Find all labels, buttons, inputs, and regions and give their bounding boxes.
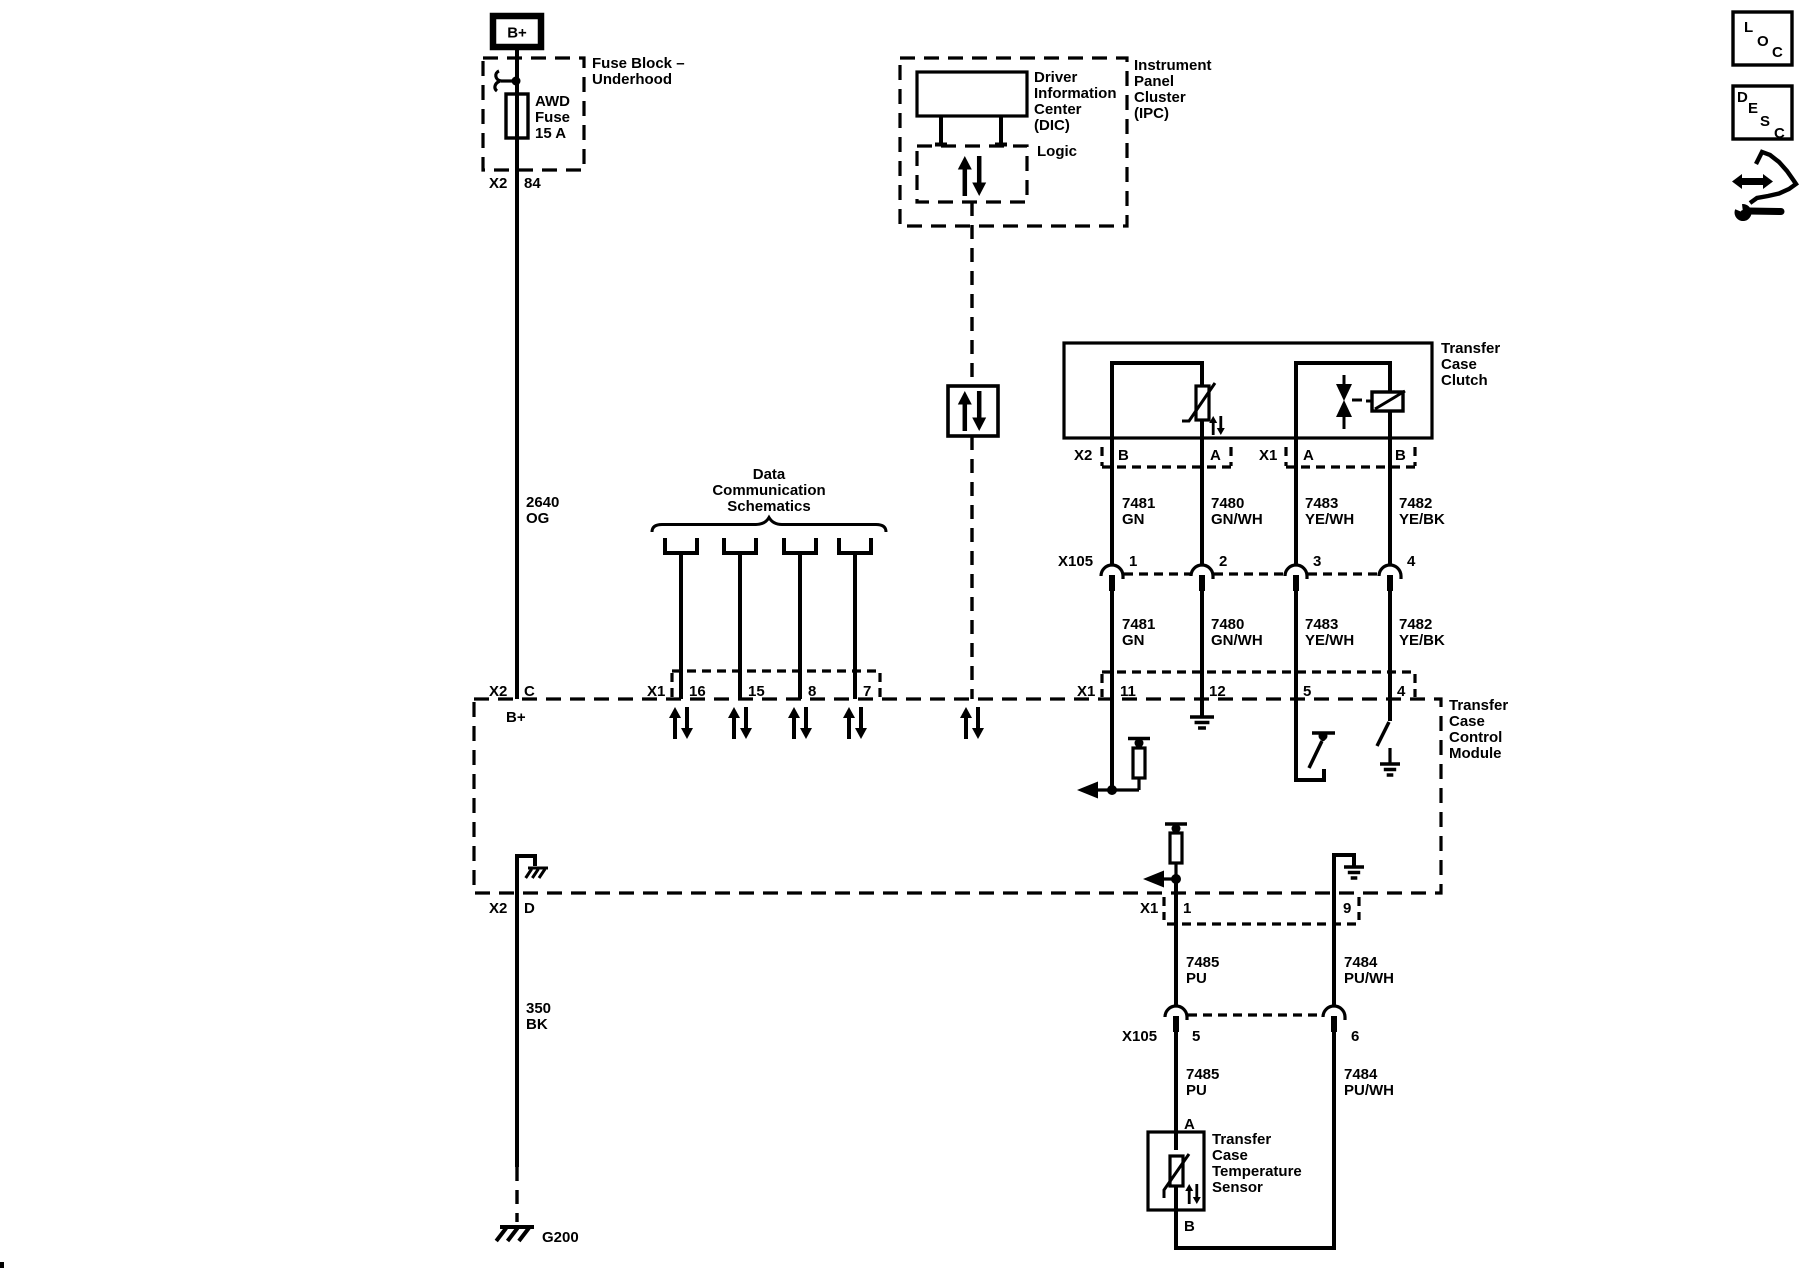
serial data arrows below DIC wire [960,707,984,739]
svg-text:Control: Control [1449,729,1502,746]
node B+ battery terminal [493,16,541,47]
svg-text:X2: X2 [489,900,507,917]
svg-text:YE/WH: YE/WH [1305,511,1354,528]
wire B+ to module pin X2 C [515,47,519,699]
module internal: pull-up resistor at pin 1 [1165,824,1187,879]
transfer case control module dashed box [474,699,1441,893]
svg-text:GN: GN [1122,511,1145,528]
wire X105 pin 5 to sensor pin A [1174,1031,1178,1150]
wire clutch pin to X105 pin 3 [1294,438,1298,564]
off-page connector 2 (data link) [724,538,756,553]
svg-text:O: O [1757,33,1769,50]
svg-text:Data: Data [753,466,786,483]
label Transfer Case Temperature Sensor [1212,1131,1302,1196]
wire label 7483 YE/WH (upper) [1305,495,1354,528]
wire data link 1 to module [679,553,683,699]
svg-text:C: C [1772,44,1783,61]
module internal: wire from pin 4 [1388,699,1392,721]
icon LOC [1733,12,1792,65]
transfer case clutch box [1064,343,1432,438]
wire label 7482 YE/BK (upper) [1399,495,1445,528]
svg-text:7484: 7484 [1344,954,1378,971]
wire label 7485 PU (lower) [1186,1066,1219,1099]
wire data link 3 to module [798,553,802,699]
module internal: switch at pin 4 [1377,722,1389,746]
serial data arrows below pin 8 [788,707,812,739]
label Instrument Panel Cluster (IPC) [1134,57,1212,122]
wire label 350 BK [526,1000,551,1033]
svg-text:Clutch: Clutch [1441,372,1488,389]
svg-text:PU/WH: PU/WH [1344,1082,1394,1099]
svg-text:Module: Module [1449,745,1502,762]
wire X105 to module X1 pin (1) [1110,590,1114,699]
pin label X2 C (module power input) [489,683,535,700]
svg-text:Fuse: Fuse [535,109,570,126]
pin label X2 D [489,900,535,917]
svg-text:3: 3 [1313,553,1321,570]
svg-text:1: 1 [1183,900,1191,917]
solenoid valve symbol [1336,375,1352,429]
svg-text:Fuse Block –: Fuse Block – [592,55,685,72]
clutch temperature sensor loop wiring [1112,363,1202,438]
svg-text:Transfer: Transfer [1212,1131,1271,1148]
svg-text:Underhood: Underhood [592,71,672,88]
serial data arrows below pin 7 [843,707,867,739]
connector X1 dashed strip (data pins) [672,671,880,697]
X105 connector terminal 6 [1323,1006,1345,1032]
svg-text:GN: GN [1122,632,1145,649]
wire label 7484 PU/WH (lower) [1344,1066,1394,1099]
svg-text:X1: X1 [1140,900,1158,917]
svg-text:350: 350 [526,1000,551,1017]
stray mark bottom-left edge [0,1262,4,1268]
svg-text:S: S [1760,113,1770,130]
svg-text:Case: Case [1212,1147,1248,1164]
svg-text:X1: X1 [1259,447,1277,464]
X105 connector terminal 5 [1165,1006,1187,1032]
module internal: ground symbol at pin 9 [1344,867,1364,878]
X105 dashed link (5-6) [1188,1013,1322,1016]
icon diagnostic arrow + wrench [1732,152,1796,221]
wire label 7483 YE/WH (lower) [1305,616,1354,649]
svg-text:A: A [1303,447,1314,464]
svg-text:L: L [1744,19,1753,36]
svg-text:C: C [1774,125,1785,142]
wire module to G200 (350 BK) [515,893,519,1167]
svg-text:Sensor: Sensor [1212,1179,1263,1196]
logic dashed box [917,146,1027,202]
svg-text:D: D [524,900,535,917]
svg-text:OG: OG [526,510,549,527]
svg-text:B: B [1118,447,1129,464]
module internal: signal branch arrow (pin 11) [1077,782,1139,799]
svg-text:4: 4 [1407,553,1416,570]
clutch connector dashed strip X2 [1102,447,1231,467]
serial data arrows below pin 16 [669,707,693,739]
off-page connector 4 (data link) [839,538,871,553]
X105 connector terminal 3 [1285,565,1307,591]
svg-text:7483: 7483 [1305,495,1338,512]
svg-text:Logic: Logic [1037,143,1077,160]
svg-text:7480: 7480 [1211,616,1244,633]
pin label X2 84 (fuse output) [489,175,541,192]
wire label 7482 YE/BK (lower) [1399,616,1445,649]
label Transfer Case Clutch [1441,340,1500,389]
fuse AWD 15 A [506,93,570,142]
wire clutch pin to X105 pin 1 [1110,438,1114,564]
svg-text:BK: BK [526,1016,548,1033]
off-page connector 1 (data link) [665,538,697,553]
X105 connector terminal 4 [1379,565,1401,591]
wire label 2640 OG [526,494,559,527]
thermistor variance arrows [1209,416,1225,435]
svg-text:(IPC): (IPC) [1134,105,1169,122]
svg-text:Transfer: Transfer [1441,340,1500,357]
svg-text:D: D [1737,89,1748,106]
svg-text:6: 6 [1351,1028,1359,1045]
off-page connector 3 (data link) [784,538,816,553]
svg-text:A: A [1210,447,1221,464]
module internal: signal branch arrow (pin 1) [1143,871,1181,888]
svg-text:Center: Center [1034,101,1082,118]
svg-text:GN/WH: GN/WH [1211,632,1263,649]
svg-text:7484: 7484 [1344,1066,1378,1083]
svg-text:Communication: Communication [712,482,825,499]
wire clutch pin to X105 pin 2 [1200,438,1204,564]
serial data junction box with arrows [948,386,998,436]
wire clutch pin to X105 pin 4 [1388,438,1392,564]
solenoid coil [1366,391,1405,411]
module internal: wire from pin 5 [1296,699,1324,780]
svg-text:Temperature: Temperature [1212,1163,1302,1180]
brace [652,518,886,533]
svg-text:7483: 7483 [1305,616,1338,633]
svg-text:G200: G200 [542,1229,579,1246]
wire label 7480 GN/WH (lower) [1211,616,1263,649]
wire data link 2 to module [738,553,742,699]
svg-text:Information: Information [1034,85,1117,102]
svg-text:GN/WH: GN/WH [1211,511,1263,528]
wire label 7481 GN (upper) [1122,495,1155,528]
svg-text:2: 2 [1219,553,1227,570]
wire X105 to module X1 pin (3) [1294,590,1298,699]
fuse element hook [495,71,521,91]
wire label 7484 PU/WH (upper) [1344,954,1394,987]
clutch solenoid loop wiring [1296,363,1390,438]
pin labels X1 1 9 [1140,900,1351,917]
svg-text:7481: 7481 [1122,616,1155,633]
svg-text:Panel: Panel [1134,73,1174,90]
clutch temperature sensor (thermistor) [1182,383,1215,421]
DIC leg left [935,116,947,146]
wire data link 4 to module [853,553,857,699]
svg-text:X105: X105 [1122,1028,1157,1045]
module internal: ground at pin 12 [1190,699,1214,728]
wire X105 to module X1 pin (2) [1200,590,1204,699]
svg-text:YE/BK: YE/BK [1399,511,1445,528]
DIC display rectangle [917,72,1027,116]
fuse block underhood dashed box [483,58,584,170]
svg-text:B: B [1395,447,1406,464]
svg-text:1: 1 [1129,553,1137,570]
X105 connector terminal 1 [1101,565,1123,591]
svg-text:AWD: AWD [535,93,570,110]
X105 pin numbers 5 6 [1192,1028,1359,1045]
svg-text:YE/WH: YE/WH [1305,632,1354,649]
svg-text:7482: 7482 [1399,495,1432,512]
svg-text:Case: Case [1441,356,1477,373]
dashed serial data wire DIC to junction box [970,202,973,386]
svg-text:PU: PU [1186,970,1207,987]
instrument panel cluster dashed box [900,58,1127,226]
module internal: switch at pin 5 [1309,732,1335,769]
dashed wire segment to G200 [515,1167,518,1222]
icon DESC [1733,86,1792,142]
svg-text:15 A: 15 A [535,125,566,142]
svg-text:PU: PU [1186,1082,1207,1099]
X105 pin numbers 1 2 3 4 [1129,553,1416,570]
pin labels X1 11 12 5 4 [1077,683,1406,700]
clutch connector pin labels X2 B A X1 A B [1074,447,1406,464]
module internal: pull-up resistor at pin 11 [1128,739,1150,791]
module internal: ground at pin 4 [1380,748,1400,775]
svg-text:YE/BK: YE/BK [1399,632,1445,649]
module internal: chassis ground to pin X2 D [517,856,548,893]
thermistor variance arrows (sensor) [1185,1184,1201,1204]
svg-text:X2: X2 [489,175,507,192]
wire label 7481 GN (lower) [1122,616,1155,649]
svg-text:Transfer: Transfer [1449,697,1508,714]
svg-text:E: E [1748,100,1758,117]
svg-text:(DIC): (DIC) [1034,117,1070,134]
svg-text:7481: 7481 [1122,495,1155,512]
wire module pin 1 to X105 pin 5 [1174,879,1178,1005]
module connector X1 dashed strip (clutch pins) [1102,672,1415,697]
wire label 7480 GN/WH (upper) [1211,495,1263,528]
clutch connector dashed strip X1 [1286,447,1415,467]
svg-text:Case: Case [1449,713,1485,730]
svg-text:Schematics: Schematics [727,498,810,515]
svg-text:9: 9 [1343,900,1351,917]
svg-text:7485: 7485 [1186,954,1219,971]
svg-text:PU/WH: PU/WH [1344,970,1394,987]
X105 connector terminal 2 [1191,565,1213,591]
wire label 7485 PU (upper) [1186,954,1219,987]
svg-text:B+: B+ [507,25,527,42]
X105 dashed links [1124,572,1378,575]
svg-text:7485: 7485 [1186,1066,1219,1083]
svg-text:Cluster: Cluster [1134,89,1186,106]
svg-text:Driver: Driver [1034,69,1078,86]
ground G200 [496,1227,578,1246]
transfer case temperature sensor box [1148,1132,1204,1210]
label Fuse Block - Underhood [592,55,685,88]
pin labels X1 16 15 8 7 [647,683,871,700]
svg-text:Instrument: Instrument [1134,57,1212,74]
wire X105 to module X1 pin (4) [1388,590,1392,699]
label Driver Information Center (DIC) [1034,69,1117,134]
module bottom connector X1 dashed strip (pins 1, 9) [1164,897,1359,924]
svg-text:X105: X105 [1058,553,1093,570]
label Data Communication Schematics [712,466,825,515]
svg-text:2640: 2640 [526,494,559,511]
DIC leg right [995,116,1007,146]
svg-text:84: 84 [524,175,541,192]
svg-text:B: B [1184,1218,1195,1235]
label Transfer Case Control Module [1449,697,1508,762]
serial data arrows below pin 15 [728,707,752,739]
module internal: ground wire to pin 9 [1334,855,1354,925]
sensor thermistor [1164,1154,1189,1198]
svg-text:B+: B+ [506,709,526,726]
module internal: wire from pin 11 [1110,699,1114,790]
valve-coil link dash [1352,399,1362,402]
wire module pin 9 to X105 pin 6 [1332,855,1336,1005]
svg-text:X2: X2 [1074,447,1092,464]
label Logic [1037,143,1077,160]
wire X105 pin 6 to sensor pin B loop [1176,1031,1334,1248]
svg-text:7480: 7480 [1211,495,1244,512]
logic serial data arrows [958,156,986,196]
svg-text:5: 5 [1192,1028,1200,1045]
svg-text:7482: 7482 [1399,616,1432,633]
dashed serial data wire junction box to module [970,436,973,699]
